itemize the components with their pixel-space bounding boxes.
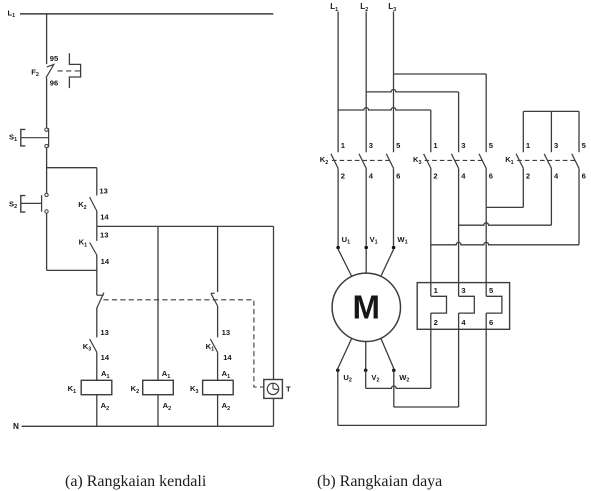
wire K3 coil to N [217,395,219,427]
label pin 5 (block) [489,286,494,295]
svg-text:3: 3 [461,141,465,150]
label K1 (power) [505,155,513,166]
label L1 (power) [330,2,338,13]
wire S2 bypass down [46,213,48,270]
contactor K1 pole 1-2 [516,141,531,180]
label 13 (K1/K3 branch) [222,328,230,337]
svg-text:K2: K2 [131,384,139,395]
label K1 (coil) [68,384,76,395]
label A2 (K3 coil) [222,401,230,412]
coil K3 [203,380,234,394]
svg-text:5: 5 [489,141,494,150]
label K3 (power) [413,155,421,166]
timer T box [264,380,283,399]
svg-text:W1: W1 [397,235,407,246]
contactor K3 pole 5-6 [479,141,494,180]
label T [286,385,291,394]
node W2 terminal [392,369,396,373]
svg-text:13: 13 [100,230,108,239]
label K3 (contact) [83,342,91,353]
node U1 terminal [336,246,340,250]
pushbutton S1 (NC) [21,128,49,148]
label V2 [371,373,379,384]
label S1 [9,133,17,144]
label L3 (power) [388,2,396,13]
svg-text:A2: A2 [101,401,109,412]
svg-text:14: 14 [101,257,110,266]
wire K1-6 to V2 net [431,168,579,245]
svg-text:U2: U2 [343,373,351,384]
F2 trip dashed link [58,70,81,72]
caption (a) Rangkaian kendali [65,473,206,491]
label K1 (holding contact) [79,238,87,249]
svg-text:M: M [353,288,381,325]
node V2 terminal [364,369,368,373]
label A2 (K2 coil) [163,401,171,412]
svg-text:96: 96 [50,79,58,88]
svg-text:K1: K1 [79,238,87,249]
svg-text:14: 14 [101,353,110,362]
wire K1 contact to coil K3 [217,352,219,380]
label K2 (power) [320,155,328,166]
svg-text:L3: L3 [388,2,396,13]
svg-text:3: 3 [369,141,373,150]
wire U1 to motor [338,249,352,276]
svg-text:K3: K3 [413,155,421,166]
svg-text:A2: A2 [222,401,230,412]
label K3 (coil) [190,384,198,395]
wire K3-2 down to terminal block [430,168,432,296]
wire K2 contact to bus [96,211,98,226]
pushbutton S2 (NO) [21,193,48,213]
svg-text:13: 13 [100,328,108,337]
terminal block [417,283,509,330]
contactor K2 pole 5-6 [386,141,401,180]
svg-text:V1: V1 [370,235,378,246]
wire interlock 2 to K1 contact [217,306,219,337]
svg-text:4: 4 [554,172,559,181]
node V1 terminal [364,246,368,250]
label pin 3 (block) [461,286,465,295]
wire bus to K1 contact [96,226,98,241]
contact K1 13-14 (for K3 coil) [210,339,217,352]
svg-text:4: 4 [461,172,466,181]
label pin 6 (block) [489,318,493,327]
svg-text:13: 13 [222,328,230,337]
label V1 [370,235,378,246]
svg-text:5: 5 [582,141,587,150]
svg-text:1: 1 [526,141,531,150]
label S2 [9,200,17,211]
contactor K1 pole 5-6 [572,141,587,180]
svg-text:1: 1 [434,286,439,295]
contactor K2 pole 3-4 [359,141,374,180]
coil K2 [143,380,174,394]
wire bus to coil K2 [157,226,159,380]
wire F2 to S1 [46,78,48,128]
svg-text:K2: K2 [78,200,86,211]
wire block-6 to U2 [338,313,486,425]
wire block-4 to W2 [394,313,459,407]
svg-text:4: 4 [461,318,466,327]
label 14 (K2) [100,213,109,222]
wire K2-4 to V1 [365,168,367,246]
svg-text:K3: K3 [190,384,198,395]
label 95 [50,54,59,63]
svg-text:1: 1 [341,141,346,150]
label A2 (K1 coil) [101,401,109,412]
label L1 [8,8,16,19]
wire L1 drop [337,12,339,153]
wire L1 to F2 [46,13,48,64]
label L2 (power) [360,2,368,13]
terminal link 3-4 [459,296,475,313]
label 14 (K1/K3 branch) [223,353,232,362]
svg-text:2: 2 [433,172,437,181]
timer mechanical dashed link [104,300,264,387]
label A1 (K1 coil) [101,369,109,380]
svg-text:2: 2 [341,172,345,181]
node junction J1 [47,167,97,169]
timer clock hands [273,383,279,389]
svg-text:3: 3 [554,141,558,150]
contact K1 13-14 holding (NO) [90,243,97,256]
label pin 2 (block) [434,318,438,327]
contact timer NC interlock 1 [97,293,104,308]
wire block-2 to V2 [366,313,431,388]
label 14 (K1 holding) [101,257,110,266]
label F2 [31,68,39,79]
svg-text:5: 5 [396,141,401,150]
label A1 (K2 coil) [162,369,170,380]
svg-text:S2: S2 [9,200,17,211]
wire S2 bypass right [47,269,97,271]
wire L2 branch to K3 [366,90,458,153]
svg-text:A2: A2 [163,401,171,412]
contact K2 13-14 (NO) [90,197,97,211]
label K1 (contact K3 branch) [206,342,214,353]
wire bus to interlock 2 [217,226,219,292]
label 96 [50,79,58,88]
K1 coupler dashed [517,159,575,161]
contact K3 13-14 (NO) [90,339,97,352]
label U2 [343,373,351,384]
wire K2 coil to N [157,395,159,427]
svg-text:A1: A1 [222,369,230,380]
label W2 [399,373,409,384]
node U2 terminal [336,369,340,373]
timer clock face [267,383,278,394]
wire motor to U2 [338,338,352,368]
svg-text:A1: A1 [162,369,170,380]
label W1 [397,235,407,246]
svg-text:L1: L1 [330,2,338,13]
svg-text:13: 13 [99,187,107,196]
label 13 (K3 contact) [100,328,108,337]
wire K3-6 down to terminal block [485,168,487,296]
wire L2 drop [365,12,367,153]
svg-text:2: 2 [434,318,438,327]
contactor K3 pole 1-2 [424,141,439,180]
wire L3 branch to K3 [394,74,487,152]
wire motor to W2 [381,338,394,368]
wire J1 to K2 contact [96,168,98,196]
label K2 (coil) [131,384,139,395]
wire S1 to S2 [46,148,48,194]
svg-text:U1: U1 [342,235,350,246]
wire V1 to motor [365,249,367,273]
label 14 (K3 contact) [101,353,110,362]
svg-text:A1: A1 [101,369,109,380]
coil K1 [81,380,112,394]
svg-text:K1: K1 [68,384,76,395]
wire timer to N [273,398,275,426]
svg-text:3: 3 [461,286,465,295]
svg-text:K3: K3 [83,342,91,353]
wire K2-2 to U1 [337,168,339,246]
caption (b) Rangkaian daya [317,473,442,491]
K2 coupler dashed [332,159,390,161]
wire K1 coil to N [96,395,98,427]
contact timer NC interlock 2 [211,293,218,306]
wire K1-2 to U2 net [486,168,523,207]
K3 coupler dashed [425,159,483,161]
wire K3 contact to coil K1 [96,352,98,380]
terminal link 5-6 [486,296,502,313]
svg-text:1: 1 [433,141,438,150]
wire K1 contact down [96,255,98,295]
overload relay F2 NC contact [46,65,54,78]
label pin 1 (block) [434,286,439,295]
terminal link 1-2 [431,296,447,313]
contactor K1 pole 3-4 [544,141,559,180]
label U1 [342,235,350,246]
svg-text:4: 4 [369,172,374,181]
svg-text:6: 6 [582,172,586,181]
svg-text:14: 14 [223,353,232,362]
svg-text:6: 6 [489,318,493,327]
wire to K3 contact [96,308,98,338]
node N rail [22,425,274,427]
wire bus to timer [273,226,275,379]
svg-text:V2: V2 [371,373,379,384]
label pin 4 (block) [461,318,466,327]
wire K1 star bridge [523,111,579,152]
node L1 rail (control supply) [20,13,273,15]
contactor K2 pole 1-2 [331,141,346,180]
wire motor to V2 [365,342,367,369]
wire L3 drop [393,12,395,153]
svg-text:14: 14 [100,213,109,222]
svg-text:6: 6 [489,172,493,181]
svg-text:L1: L1 [8,8,16,19]
wire K3-4 down to terminal block [458,168,460,296]
motor M [332,273,400,341]
svg-text:95: 95 [50,54,59,63]
svg-text:T: T [286,385,291,394]
label 13 (K1 holding) [100,230,108,239]
svg-text:N: N [13,422,19,431]
label N [13,422,19,431]
wire bus rail [97,225,274,227]
svg-text:S1: S1 [9,133,17,144]
svg-text:K2: K2 [320,155,328,166]
label 13 (K2) [99,187,107,196]
svg-text:L2: L2 [360,2,368,13]
svg-text:6: 6 [396,172,400,181]
svg-text:K1: K1 [505,155,513,166]
wire K1-4 to W2 net [459,168,552,225]
wire K2-6 to W1 [393,168,395,246]
contactor K3 pole 3-4 [451,141,466,180]
svg-text:F2: F2 [31,68,39,79]
wire L1 branch to K3 [338,108,431,153]
F2 thermal element symbol [69,53,80,88]
label A1 (K3 coil) [222,369,230,380]
svg-text:2: 2 [526,172,530,181]
svg-text:5: 5 [489,286,494,295]
svg-text:W2: W2 [399,373,409,384]
node W1 terminal [392,246,396,250]
wire W1 to motor [381,249,394,276]
label K2 (contact) [78,200,86,211]
